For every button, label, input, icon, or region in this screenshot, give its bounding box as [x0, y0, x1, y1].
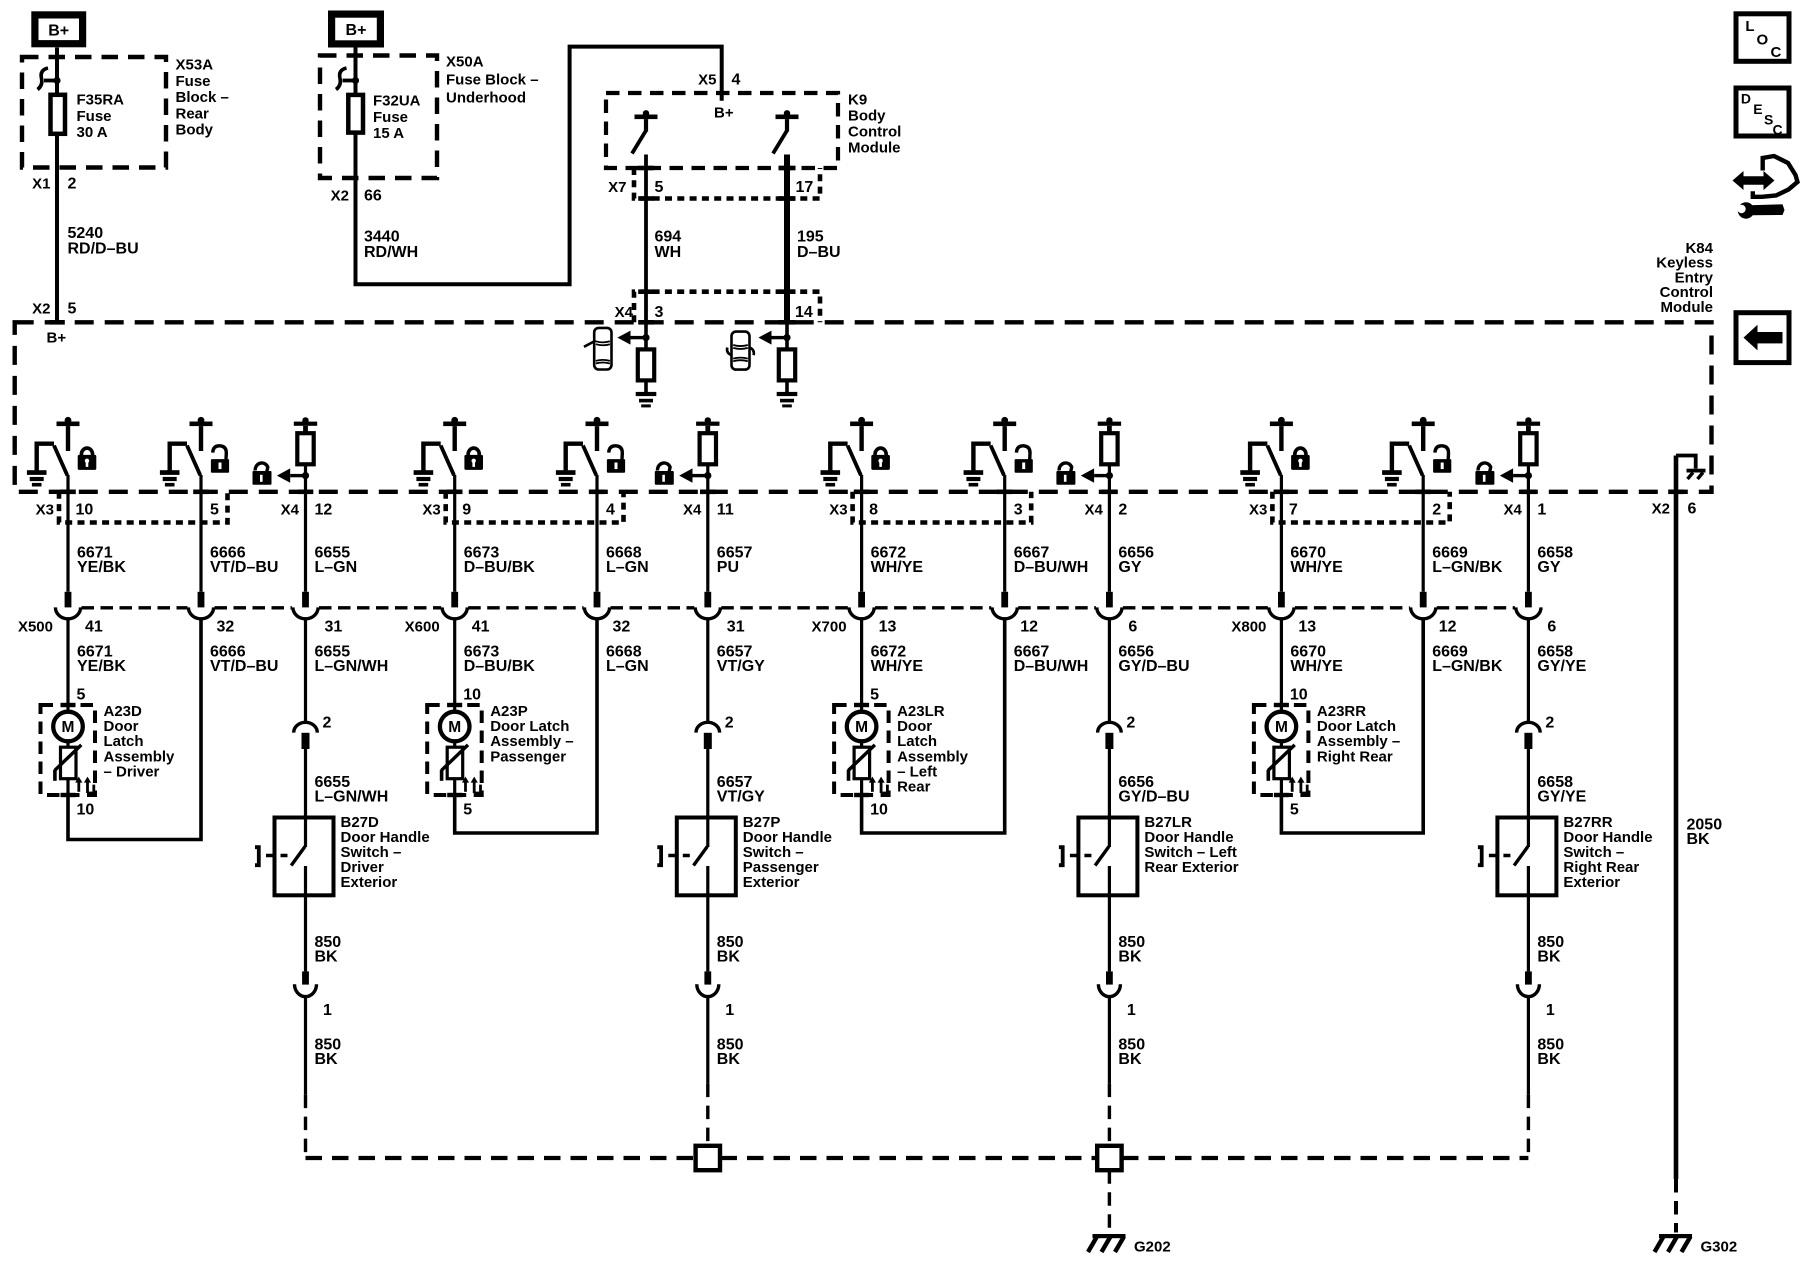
svg-text:X4: X4: [683, 502, 702, 519]
svg-text:2: 2: [1432, 502, 1441, 519]
svg-text:GY/YE: GY/YE: [1537, 789, 1586, 806]
svg-text:4: 4: [606, 502, 615, 519]
icon button DESC: [1736, 88, 1789, 138]
pin label 1: [1127, 1002, 1136, 1019]
mechanical linkage (dashed) to handle (passenger): [668, 854, 690, 858]
switch contacts inside B27LR: [1095, 818, 1109, 896]
svg-text:E: E: [1753, 101, 1762, 117]
wire unlock output (left rear): [997, 475, 1013, 592]
wire labels above X700: [871, 545, 1154, 577]
svg-text:1: 1: [1127, 1002, 1136, 1019]
label K84 Keyless Entry Control Module: [1656, 240, 1713, 316]
fuse clip terminal in X53A: [38, 68, 61, 90]
padlock icon unlocked with arrow (right rear): [1475, 463, 1532, 485]
svg-text:5: 5: [210, 502, 219, 519]
svg-text:1: 1: [323, 1002, 332, 1019]
label X50A Fuse Block - Underhood: [446, 54, 539, 107]
svg-text:Fuse: Fuse: [373, 109, 408, 126]
wire latch return loop (right rear): [1281, 619, 1423, 833]
svg-text:14: 14: [795, 304, 813, 321]
svg-text:BK: BK: [1118, 949, 1142, 966]
in-line connector pin 2 (right rear): [1517, 722, 1541, 749]
svg-text:Fuse: Fuse: [176, 73, 211, 90]
wire connector to latch (left rear): [860, 619, 863, 704]
svg-text:L: L: [1745, 18, 1754, 35]
svg-text:32: 32: [613, 619, 631, 636]
pin label 1: [725, 1002, 734, 1019]
svg-text:BK: BK: [1687, 831, 1711, 848]
svg-text:M: M: [855, 719, 868, 736]
padlock icon unlocked with arrow (left rear): [1056, 463, 1113, 485]
wire from B+ through fuse F32UA to K9 X5-4: [356, 47, 722, 285]
resistor handle-switch sense (passenger): [696, 417, 719, 464]
pin numbers X800: [1298, 619, 1556, 636]
pin labels X7 5 17: [608, 179, 813, 196]
connector X7 (dotted box under K9): [634, 168, 820, 199]
pin label X2 5: [32, 301, 76, 318]
internal ground symbol in K84: [1676, 456, 1706, 480]
svg-text:X4: X4: [281, 502, 300, 519]
svg-text:X53A: X53A: [176, 57, 214, 74]
wire label 2050 BK: [1687, 817, 1723, 849]
pin labels X4 3 14: [615, 304, 813, 321]
icon navigate (arrows and wrench): [1733, 156, 1798, 219]
svg-text:WH/YE: WH/YE: [871, 658, 924, 675]
pin label 10 (latch top, passenger): [463, 687, 481, 704]
svg-text:66: 66: [364, 188, 382, 205]
padlock icon unlocking (passenger): [607, 446, 625, 473]
svg-text:B+: B+: [47, 330, 67, 347]
svg-text:B+: B+: [714, 105, 734, 122]
pin label 10 (latch top, right rear): [1290, 687, 1308, 704]
ground G202: [1088, 1234, 1126, 1252]
label K9 Body Control Module: [848, 92, 901, 157]
svg-text:1: 1: [1546, 1002, 1555, 1019]
pin labels X4 1 (right rear): [1504, 502, 1547, 519]
svg-text:WH/YE: WH/YE: [871, 559, 924, 576]
label A23LR Door Latch Assembly - Left Rear: [897, 703, 969, 796]
wire connector to handle switch (right rear): [1527, 749, 1530, 818]
svg-text:D–BU/WH: D–BU/WH: [1014, 559, 1089, 576]
svg-text:BK: BK: [1537, 1051, 1561, 1068]
pin label 10 (latch bottom, left rear): [870, 802, 888, 819]
splice junction (passenger): [696, 1146, 720, 1170]
svg-text:2: 2: [1545, 715, 1554, 732]
svg-text:10: 10: [463, 687, 481, 704]
svg-text:2: 2: [68, 176, 77, 193]
svg-text:X2: X2: [331, 188, 349, 205]
wire latch return loop (passenger): [455, 619, 597, 833]
wire lock output (driver): [60, 475, 76, 592]
svg-text:17: 17: [796, 179, 814, 196]
actuation arrows in latch (driver): [75, 777, 94, 793]
padlock icon unlocking (right rear): [1433, 446, 1451, 473]
wire label 850 BK: [315, 1037, 342, 1069]
svg-text:G302: G302: [1701, 1239, 1738, 1256]
pin labels X3 10 5 (driver): [36, 502, 219, 519]
svg-text:M: M: [448, 719, 461, 736]
svg-text:BK: BK: [1537, 949, 1561, 966]
junction + arrow to car icon: [617, 331, 649, 345]
wire unlock output (right rear): [1415, 475, 1431, 592]
padlock icon locked (driver): [78, 448, 97, 470]
pin label 5 (latch bottom, right rear): [1290, 802, 1299, 819]
pin labels X4 12 (driver): [281, 502, 333, 519]
label connector X700: [812, 619, 847, 636]
svg-text:30 A: 30 A: [77, 124, 108, 141]
svg-text:VT/D–BU: VT/D–BU: [210, 658, 278, 675]
wire to ground G202 (dashed): [1108, 1170, 1111, 1232]
pin label 5 (latch top, left rear): [870, 687, 879, 704]
pin labels X3 9 4 (passenger): [422, 502, 615, 519]
module K84 Keyless Entry Control Module (dashed box): [15, 322, 1712, 492]
svg-text:X4: X4: [1504, 502, 1523, 519]
motor M in latch (left rear): [847, 705, 877, 741]
svg-text:Rear: Rear: [176, 105, 210, 122]
svg-text:10: 10: [1290, 687, 1308, 704]
in-line connector pin 1 (driver): [295, 971, 317, 996]
svg-text:X3: X3: [1249, 502, 1267, 519]
wire 195 D-BU from K9 X7-17 to K84 X4-14: [779, 155, 796, 325]
svg-text:3: 3: [655, 304, 664, 321]
wire connector to latch (passenger): [453, 619, 456, 704]
label connector X600: [405, 619, 440, 636]
svg-text:GY: GY: [1537, 559, 1560, 576]
actuation arrows in latch (right rear): [1289, 777, 1308, 793]
door latch assembly A23RR (dashed box): [1254, 703, 1309, 797]
handle bracket (driver): [255, 847, 259, 865]
svg-text:BK: BK: [717, 949, 741, 966]
svg-text:3440: 3440: [364, 229, 400, 246]
padlock icon unlocked with arrow (passenger): [655, 463, 712, 485]
svg-text:Exterior: Exterior: [341, 874, 398, 891]
svg-text:RD/WH: RD/WH: [364, 244, 418, 261]
svg-text:Module: Module: [1661, 299, 1714, 316]
handle bracket (passenger): [657, 847, 661, 865]
svg-text:X3: X3: [422, 502, 440, 519]
connector X3 dotted box (right rear): [1272, 492, 1449, 523]
position sensor in latch (left rear): [847, 742, 875, 795]
svg-text:13: 13: [1298, 619, 1316, 636]
wire 850 BK upper (driver): [304, 895, 307, 971]
wire connector to latch (driver): [66, 619, 69, 704]
svg-text:L–GN/BK: L–GN/BK: [1432, 559, 1503, 576]
actuation arrows in latch (passenger): [462, 777, 481, 793]
wire 850 BK upper (right rear): [1527, 895, 1530, 971]
pin numbers X600: [472, 619, 745, 636]
mechanical linkage (dashed) to handle (left rear): [1070, 854, 1092, 858]
label A23RR Door Latch Assembly - Right Rear: [1317, 703, 1400, 765]
svg-text:M: M: [1275, 719, 1288, 736]
connector X700 terminal pin 12 (left rear unlock): [992, 592, 1017, 619]
wire handle sense (left rear): [1102, 464, 1118, 592]
svg-text:41: 41: [85, 619, 103, 636]
wire labels below X500: [77, 644, 388, 676]
in-line connector pin 2 (left rear): [1098, 722, 1122, 749]
svg-text:B+: B+: [48, 23, 69, 40]
motor M in latch (passenger): [440, 705, 470, 741]
svg-text:12: 12: [1020, 619, 1038, 636]
mechanical linkage (dashed) to handle (driver): [266, 854, 288, 858]
wire labels above X600: [464, 545, 753, 577]
svg-text:Fuse: Fuse: [77, 108, 112, 125]
car icon (lock indicator): [584, 328, 612, 370]
fuse block X53A (dashed box): [22, 57, 166, 168]
svg-text:VT/GY: VT/GY: [717, 658, 765, 675]
switch contacts inside B27D: [291, 818, 305, 896]
pin label 2: [1126, 715, 1135, 732]
connector X700 terminal pin 6 (left rear handle): [1097, 592, 1122, 619]
svg-text:X2: X2: [32, 301, 50, 318]
svg-text:12: 12: [1439, 619, 1457, 636]
connector X4 (dotted box above K84): [634, 292, 820, 323]
svg-text:1: 1: [725, 1002, 734, 1019]
svg-text:X600: X600: [405, 619, 440, 636]
padlock icon unlocking (left rear): [1015, 446, 1033, 473]
wire to handle switch connector (left rear): [1108, 619, 1111, 723]
resistor handle-switch sense (right rear): [1517, 417, 1540, 464]
svg-text:D–BU: D–BU: [797, 244, 841, 261]
wire label 850 BK: [315, 934, 342, 966]
svg-text:PU: PU: [717, 559, 739, 576]
wire label 6656 GY/D-BU: [1118, 774, 1189, 806]
wire 850 BK upper (passenger): [706, 895, 709, 971]
svg-text:Module: Module: [848, 140, 901, 157]
door handle switch B27D (box): [275, 818, 334, 896]
power symbol B+ (battery feed, underhood): [332, 14, 381, 44]
label B27LR Door Handle Switch - Left Rear Exterior: [1144, 814, 1238, 876]
fuse block X50A (dashed box): [320, 56, 437, 179]
svg-text:GY/D–BU: GY/D–BU: [1118, 658, 1189, 675]
door handle switch B27RR (box): [1497, 818, 1556, 896]
pin label 5 (latch bottom, passenger): [463, 802, 472, 819]
wire lock output (left rear): [854, 475, 870, 592]
svg-text:31: 31: [325, 619, 343, 636]
svg-text:X1: X1: [32, 176, 50, 193]
position sensor in latch (passenger): [440, 742, 468, 795]
svg-text:10: 10: [870, 802, 888, 819]
label connector X800: [1231, 619, 1266, 636]
svg-text:GY: GY: [1118, 559, 1141, 576]
svg-text:5240: 5240: [68, 225, 104, 242]
pin label X2 66: [331, 188, 382, 205]
svg-text:X5: X5: [698, 72, 716, 89]
wire lock output (right rear): [1274, 475, 1290, 592]
wire connector to handle switch (driver): [304, 749, 307, 818]
wire labels below X600: [464, 644, 765, 676]
connector X800 terminal pin 6 (right rear handle): [1516, 592, 1541, 619]
svg-text:6: 6: [1547, 619, 1556, 636]
padlock icon locked (right rear): [1291, 448, 1310, 470]
svg-text:K9: K9: [848, 92, 867, 109]
wire to handle switch connector (passenger): [706, 619, 709, 723]
door handle switch B27LR (box): [1078, 818, 1137, 896]
label F35RA Fuse 30 A: [77, 92, 125, 142]
svg-text:C: C: [1771, 44, 1782, 61]
svg-text:5: 5: [77, 687, 86, 704]
svg-text:32: 32: [217, 619, 235, 636]
power symbol B+ (battery feed, rear body): [35, 15, 83, 44]
wire label 850 BK: [1118, 934, 1145, 966]
resistor handle-switch sense (driver): [294, 417, 317, 464]
wire unlock output (passenger): [589, 475, 605, 592]
door latch assembly A23LR (dashed box): [834, 703, 889, 797]
wire label 6658 GY/YE: [1537, 774, 1586, 806]
wire 2050 BK from K84 X2-6 to G302: [1668, 456, 1684, 1233]
wire label 850 BK: [1537, 1037, 1564, 1069]
svg-text:BK: BK: [1118, 1051, 1142, 1068]
unlock switch (passenger) inside K84: [556, 417, 609, 487]
svg-text:F35RA: F35RA: [77, 92, 125, 109]
svg-text:5: 5: [68, 301, 77, 318]
svg-text:9: 9: [462, 502, 471, 519]
wire connector to latch (right rear): [1280, 619, 1283, 704]
motor M in latch (right rear): [1267, 705, 1297, 741]
svg-text:F32UA: F32UA: [373, 93, 421, 110]
svg-text:X4: X4: [1085, 502, 1104, 519]
lock switch (passenger) inside K84: [414, 417, 467, 487]
icon button LOC: [1736, 14, 1789, 62]
svg-text:10: 10: [76, 502, 94, 519]
wire labels above X500: [77, 545, 357, 577]
unlock switch (driver) inside K84: [160, 417, 213, 487]
connector X800 terminal pin 12 (right rear unlock): [1411, 592, 1436, 619]
label B27D Door Handle Switch - Driver Exterior: [341, 814, 430, 891]
connector X800 terminal pin 13 (right rear lock): [1269, 592, 1294, 619]
wire to interior resistor: [644, 322, 648, 393]
svg-text:D–BU/WH: D–BU/WH: [1014, 658, 1089, 675]
wire 850 BK lower (passenger): [706, 997, 709, 1146]
connector X500 terminal pin 32 (driver unlock): [188, 592, 213, 619]
wire connector to handle switch (left rear): [1108, 749, 1111, 818]
junction + arrow to car icon: [758, 331, 790, 345]
dashed harness connector line (X500 row): [82, 606, 1515, 609]
connector X600 terminal pin 31 (passenger handle): [695, 592, 720, 619]
wire 850 BK upper (left rear): [1108, 895, 1111, 971]
wire connector to handle switch (passenger): [706, 749, 709, 818]
switch (output 17) inside K9: [773, 110, 799, 153]
svg-text:2: 2: [1118, 502, 1127, 519]
svg-text:– Driver: – Driver: [104, 763, 160, 780]
svg-text:31: 31: [727, 619, 745, 636]
pin label 10 (latch bottom, driver): [77, 802, 95, 819]
svg-text:Rear: Rear: [897, 779, 931, 796]
svg-text:694: 694: [655, 229, 682, 246]
pin numbers X700: [879, 619, 1138, 636]
in-line connector pin 2 (passenger): [696, 722, 720, 749]
svg-text:X4: X4: [615, 304, 634, 321]
svg-text:5: 5: [463, 802, 472, 819]
wire label 850 BK: [1118, 1037, 1145, 1069]
svg-text:6: 6: [1128, 619, 1137, 636]
svg-text:WH/YE: WH/YE: [1290, 559, 1343, 576]
pin label X5 4: [698, 72, 740, 89]
splice junction (left rear, to G202): [1097, 1146, 1121, 1170]
handle bracket (left rear): [1059, 847, 1063, 865]
pin labels X4 2 (left rear): [1085, 502, 1128, 519]
svg-text:L–GN/WH: L–GN/WH: [315, 658, 389, 675]
svg-text:15 A: 15 A: [373, 125, 404, 142]
padlock icon unlocked with arrow (driver): [253, 463, 310, 485]
svg-text:VT/GY: VT/GY: [717, 789, 765, 806]
wire label 5240 RD/D-BU: [68, 225, 139, 258]
pin label 2: [1545, 715, 1554, 732]
pin labels X4 11 (passenger): [683, 502, 734, 519]
connector X700 terminal pin 13 (left rear lock): [849, 592, 874, 619]
svg-text:X3: X3: [829, 502, 847, 519]
in-line connector pin 2 (driver): [294, 722, 318, 749]
wire label 6657 VT/GY: [717, 774, 765, 806]
door latch assembly A23P (dashed box): [427, 703, 482, 797]
wire label 694 WH: [655, 229, 682, 262]
svg-text:X800: X800: [1231, 619, 1266, 636]
wire 850 BK lower (right rear): [1527, 997, 1530, 1158]
svg-text:X50A: X50A: [446, 54, 484, 71]
padlock icon unlocking (driver): [211, 446, 229, 473]
ground G302: [1655, 1234, 1693, 1252]
wire lock output (passenger): [447, 475, 463, 592]
svg-text:Right Rear: Right Rear: [1317, 748, 1393, 765]
svg-text:L–GN: L–GN: [606, 559, 649, 576]
svg-text:13: 13: [879, 619, 897, 636]
svg-text:BK: BK: [717, 1051, 741, 1068]
svg-text:D: D: [1741, 91, 1751, 107]
pin label 2: [323, 715, 332, 732]
pin labels X3 8 3 (left rear): [829, 502, 1022, 519]
wire labels below X800: [1290, 644, 1586, 676]
padlock icon locked (passenger): [464, 448, 483, 470]
label A23P Door Latch Assembly - Passenger: [490, 703, 573, 765]
fuse F35RA 30 A: [51, 95, 66, 134]
node B+ inside K9: [714, 105, 734, 122]
padlock icon locked (left rear): [871, 448, 890, 470]
fuse clip terminal in X50A: [336, 68, 359, 90]
svg-text:L–GN/BK: L–GN/BK: [1432, 658, 1503, 675]
pin numbers X500: [85, 619, 342, 636]
wire unlock output (driver): [193, 475, 209, 592]
svg-text:BK: BK: [315, 949, 339, 966]
pin label 1: [1546, 1002, 1555, 1019]
svg-text:5: 5: [870, 687, 879, 704]
svg-text:2: 2: [1126, 715, 1135, 732]
svg-text:Block –: Block –: [176, 89, 229, 106]
resistor (interior): [638, 349, 654, 380]
wire 694 WH from K9 X7-5 to K84 X4-3: [638, 155, 654, 325]
module K9 Body Control Module (dashed box): [606, 93, 838, 168]
label B27RR Door Handle Switch - Right Rear Exterior: [1563, 814, 1652, 891]
switch contacts inside B27P: [694, 818, 708, 896]
svg-text:X7: X7: [608, 179, 626, 196]
svg-text:C: C: [1773, 122, 1783, 138]
svg-text:7: 7: [1289, 502, 1298, 519]
wire label 850 BK: [717, 1037, 744, 1069]
wire handle sense (passenger): [700, 464, 716, 592]
wire 850 BK lower (driver): [304, 997, 307, 1158]
door handle switch B27P (box): [677, 818, 736, 896]
wire to handle switch connector (driver): [304, 619, 307, 723]
connector X600 terminal pin 32 (passenger unlock): [584, 592, 609, 619]
wire latch return loop (left rear): [862, 619, 1005, 833]
in-line connector pin 1 (passenger): [697, 971, 719, 996]
wire 850 BK lower (left rear): [1108, 997, 1111, 1146]
fuse F32UA 15 A: [348, 95, 363, 133]
lock switch (left rear) inside K84: [821, 417, 874, 487]
svg-text:BK: BK: [315, 1051, 339, 1068]
svg-text:VT/D–BU: VT/D–BU: [210, 559, 278, 576]
position sensor in latch (right rear): [1267, 742, 1295, 795]
svg-text:Fuse Block –: Fuse Block –: [446, 72, 539, 89]
svg-text:Passenger: Passenger: [490, 748, 566, 765]
